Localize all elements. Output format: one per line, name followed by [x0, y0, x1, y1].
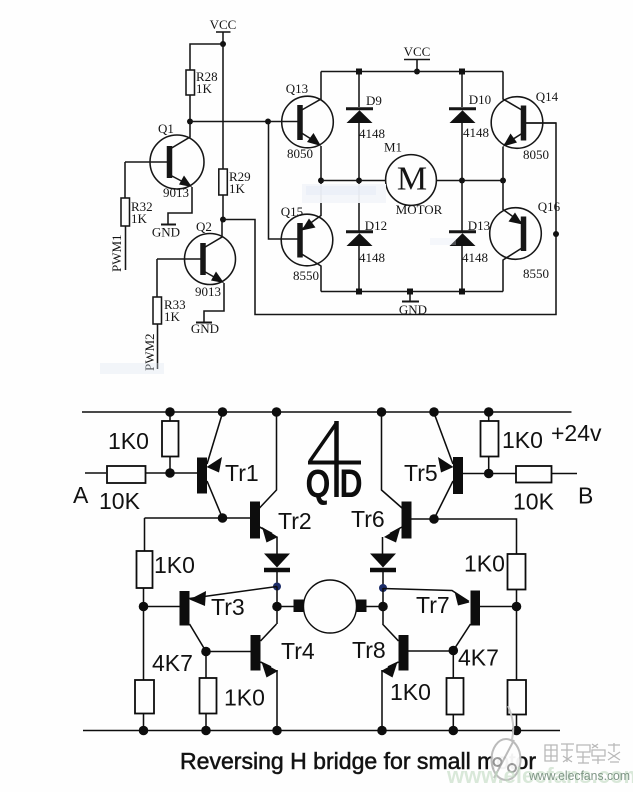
transistor Tr8	[352, 624, 453, 731]
svg-text:www.elecfans.com: www.elecfans.com	[528, 768, 630, 783]
svg-text:D: D	[339, 461, 362, 506]
svg-text:4148: 4148	[463, 125, 489, 140]
svg-text:9013: 9013	[195, 284, 221, 299]
svg-text:Tr2: Tr2	[278, 508, 312, 534]
node Tr5 collector junction	[429, 514, 439, 524]
svg-text:GND: GND	[152, 225, 180, 240]
wire to motor left node	[276, 587, 278, 625]
wire ground rail of bridge	[321, 291, 503, 293]
node Tr1 base junction	[165, 468, 175, 478]
node D9 bottom junction	[356, 178, 362, 184]
wire Q2 base to R33	[156, 259, 158, 297]
svg-text:10K: 10K	[99, 488, 141, 514]
ground GND (Q1)	[152, 225, 180, 240]
svg-text:D12: D12	[365, 218, 387, 233]
svg-text:Q14: Q14	[536, 89, 559, 104]
wire Q1 base to R32	[124, 162, 126, 198]
node Q16 base junction	[553, 231, 559, 237]
svg-text:+24v: +24v	[551, 420, 602, 446]
wire top rail of bridge	[321, 71, 503, 73]
motor (bottom bridge)	[294, 580, 367, 633]
wire Tr2 collector to rail	[260, 412, 277, 508]
transistor Tr3	[144, 587, 278, 652]
svg-text:Q: Q	[306, 461, 331, 506]
svg-text:Tr6: Tr6	[351, 506, 385, 532]
node rail junction 1K0 right	[484, 407, 494, 417]
svg-text:4K7: 4K7	[152, 650, 193, 676]
node Q15 base branch junction	[265, 119, 271, 125]
svg-text:8050: 8050	[523, 147, 549, 162]
transistor Tr2	[250, 502, 312, 554]
transistor Tr5	[404, 413, 489, 519]
node bottom rail junction 1K0 right	[449, 726, 459, 736]
wire smudge artifacts	[100, 184, 456, 374]
wire Q1 collector node to Q13 base	[190, 121, 300, 123]
svg-text:9013: 9013	[163, 185, 189, 200]
node Tr7 base junction	[512, 602, 522, 612]
node PWM2 label	[142, 333, 157, 371]
resistor 1K0 (top right)	[481, 412, 543, 474]
node D10 bottom junction	[459, 178, 465, 184]
wire Q2 collector to right half bridge bases	[223, 123, 556, 315]
transistor Q16 8550	[490, 181, 561, 292]
svg-text:Q16: Q16	[538, 199, 561, 214]
terminal B	[578, 483, 593, 509]
wire VCC down to R29	[222, 44, 224, 169]
watermark www.elecfans.com (small dark)	[528, 768, 630, 783]
svg-text:1K: 1K	[131, 211, 148, 226]
svg-text:Q13: Q13	[286, 81, 308, 96]
svg-text:D10: D10	[469, 92, 491, 107]
resistor 1K0 (mid left)	[137, 551, 195, 607]
diode D12 4148	[346, 181, 387, 292]
node Q14 emitter junction	[500, 178, 506, 184]
wire motor left lead	[277, 606, 294, 608]
wire Q2 emitter to ground	[204, 283, 224, 322]
diode D13 4148	[449, 181, 490, 292]
svg-text:Q15: Q15	[281, 204, 303, 219]
transistor Tr7	[383, 589, 517, 651]
node bottom rail junction 4K7 right	[512, 726, 522, 736]
node D9 top junction	[356, 69, 362, 75]
svg-text:4148: 4148	[359, 126, 385, 141]
node D12 bottom junction	[356, 289, 362, 295]
node Tr4 base junction	[201, 647, 211, 657]
svg-text:10K: 10K	[513, 489, 555, 515]
wire PWM1 input	[125, 226, 127, 270]
svg-text:Tr7: Tr7	[416, 592, 450, 618]
node motor left junction	[272, 602, 282, 612]
node Tr3 base junction	[139, 602, 149, 612]
wire Tr2 base row	[145, 517, 251, 519]
wire Q1 emitter to ground	[168, 187, 192, 224]
node motor right junction	[378, 602, 388, 612]
svg-text:MOTOR: MOTOR	[396, 202, 443, 217]
wire motor node left	[321, 180, 387, 182]
node diode left bottom (Tr3 emitter)	[273, 583, 281, 591]
resistor R32 1K	[121, 198, 153, 226]
power +24v label	[551, 420, 602, 446]
transistor Tr4	[206, 624, 315, 731]
svg-text:A: A	[73, 482, 89, 508]
svg-text:Tr8: Tr8	[352, 637, 386, 663]
title Reversing H bridge for small motor	[180, 748, 536, 774]
wire to motor right node	[382, 588, 384, 624]
wire ground bottom rail	[83, 730, 560, 732]
node D10 top junction	[459, 69, 465, 75]
node Q2 collector junction	[220, 217, 226, 223]
power VCC (left)	[210, 17, 237, 44]
node diode right bottom (Tr7 emitter)	[379, 584, 387, 592]
watermark www.elecfans.com (large light)	[446, 763, 633, 788]
node bottom rail junction Tr4 emitter	[272, 726, 282, 736]
node VCC left junction	[220, 41, 226, 47]
wire Tr6 base row to right bias column	[434, 519, 517, 554]
transistor Q13 8050	[282, 72, 334, 162]
svg-text:M1: M1	[384, 140, 402, 155]
resistor 10K (right)	[489, 466, 577, 515]
diode right	[370, 554, 396, 589]
svg-text:VCC: VCC	[404, 44, 431, 59]
resistor R29 1K	[219, 169, 251, 196]
svg-text:1K0: 1K0	[464, 551, 505, 577]
svg-text:4148: 4148	[359, 250, 385, 265]
node GND tap junction	[407, 289, 413, 295]
node rail junction Tr5 emitter	[429, 407, 439, 417]
transistor Tr1	[197, 413, 259, 518]
node rail junction Tr2 collector	[272, 407, 282, 417]
wire Q14 emitter down	[502, 147, 504, 181]
svg-text:1K0: 1K0	[224, 685, 265, 711]
diode D9 4148	[346, 72, 385, 181]
diode D10 4148	[449, 72, 491, 181]
wire branch down to Q15 base	[269, 122, 301, 240]
power VCC (bridge)	[404, 44, 431, 72]
svg-text:1K0: 1K0	[390, 679, 431, 705]
svg-text:GND: GND	[399, 302, 427, 317]
terminal A	[73, 473, 106, 508]
watermark circle logo	[492, 706, 521, 780]
svg-text:B: B	[578, 483, 593, 509]
wire +24v top rail	[82, 411, 572, 413]
node rail junction Tr1 emitter	[218, 407, 228, 417]
node rail junction Tr6 collector	[377, 407, 387, 417]
svg-text:8550: 8550	[523, 266, 549, 281]
ground GND (Q2)	[191, 321, 219, 336]
svg-text:1K: 1K	[164, 309, 181, 324]
svg-text:4K7: 4K7	[458, 645, 499, 671]
transistor Q1 9013	[125, 121, 204, 200]
wire motor right lead	[367, 606, 384, 608]
svg-text:Q1: Q1	[158, 121, 174, 136]
resistor 1K0 (top left)	[108, 412, 179, 473]
transistor Q14 8050	[491, 72, 558, 163]
ground GND (bridge)	[399, 292, 427, 318]
node Tr8 base junction	[449, 646, 459, 656]
svg-text:M: M	[397, 161, 427, 198]
node motor left top junction	[318, 178, 324, 184]
resistor 10K (left)	[99, 466, 198, 514]
svg-text:VCC: VCC	[210, 17, 237, 32]
logo 4QD	[306, 421, 363, 506]
svg-text:GND: GND	[191, 321, 219, 336]
node bottom rail junction 1K0 left	[201, 726, 211, 736]
wire left bias column	[144, 518, 146, 551]
wire Tr6 collector to rail	[382, 412, 403, 508]
svg-text:D13: D13	[468, 218, 490, 233]
svg-text:1K0: 1K0	[108, 428, 149, 454]
svg-text:Tr3: Tr3	[211, 594, 245, 620]
svg-text:Q2: Q2	[196, 219, 212, 234]
node bottom rail junction Tr8 emitter	[377, 726, 387, 736]
svg-text:1K: 1K	[196, 81, 213, 96]
watermark chinese characters	[545, 743, 620, 764]
resistor 1K0 (below Tr8 base)	[390, 651, 464, 731]
wire R29 bottom to Q2 collector node	[222, 195, 224, 220]
svg-text:1K0: 1K0	[154, 552, 195, 578]
wire VCC to R28 top	[190, 44, 223, 70]
node Tr5 base junction	[484, 469, 494, 479]
resistor R28 1K	[186, 69, 218, 96]
svg-text:Tr1: Tr1	[225, 460, 259, 486]
transistor Q2 9013	[157, 219, 236, 299]
svg-text:1K: 1K	[229, 181, 246, 196]
wire R28 bottom to Q1 collector node	[189, 95, 191, 122]
transistor Tr6	[351, 502, 434, 554]
motor M1	[384, 140, 443, 218]
node VCC bridge junction	[414, 69, 420, 75]
svg-text:Tr4: Tr4	[281, 638, 315, 664]
svg-text:Tr5: Tr5	[404, 460, 438, 486]
node bottom rail junction 4K7 left	[139, 726, 149, 736]
node Tr1 collector junction	[218, 513, 228, 523]
svg-text:8550: 8550	[293, 268, 319, 283]
svg-text:1K0: 1K0	[502, 427, 543, 453]
resistor 4K7 (left)	[135, 607, 193, 731]
node rail junction 1K0 left	[165, 407, 175, 417]
resistor 1K0 (mid right)	[464, 551, 526, 607]
diode left	[264, 554, 290, 587]
wire Q13 emitter down to motor node	[320, 146, 322, 181]
resistor R33 1K	[153, 297, 186, 324]
svg-text:4148: 4148	[462, 250, 488, 265]
resistor 1K0 (below Tr4 base)	[200, 652, 265, 731]
node D13 bottom junction	[459, 289, 465, 295]
resistor 4K7 (right)	[458, 607, 526, 731]
wire motor node right	[436, 180, 503, 182]
node Q1 collector junction	[187, 119, 193, 125]
wire PWM2 input	[157, 324, 159, 369]
svg-text:PWM1: PWM1	[109, 234, 124, 272]
node PWM1 label	[109, 234, 124, 272]
svg-text:8050: 8050	[287, 146, 313, 161]
transistor Q15 8550	[281, 181, 333, 292]
svg-text:D9: D9	[366, 93, 382, 108]
